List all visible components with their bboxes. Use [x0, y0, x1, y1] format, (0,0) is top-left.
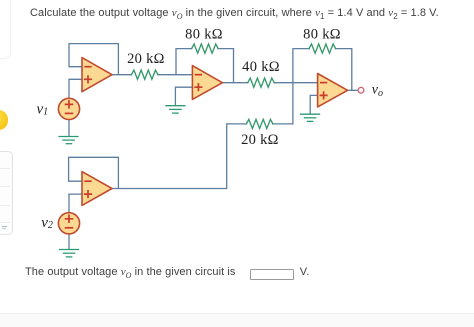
answer sentence: [25, 266, 236, 280]
svg-text:80 kΩ: 80 kΩ: [303, 27, 341, 43]
resistor R1 20 kOhm: [131, 70, 158, 79]
yellow circle fragment: [0, 110, 8, 129]
wire: R3 to U3 inverting input (junction node A at x=292.9): [274, 82, 318, 84]
wire: U4 output up to R5: [110, 124, 247, 189]
wire: U3 feedback right riser (R4 to output): [335, 49, 351, 91]
ground (U3 non-inverting input): [301, 114, 320, 121]
wire: U1 output to R1: [110, 74, 132, 76]
wire: U4 feedback loop: [69, 157, 119, 188]
left sidebar panel fragment: [0, 151, 13, 236]
wire: U2 non-inverting input to ground: [175, 87, 192, 105]
source V1 (independent voltage source): [58, 98, 79, 119]
unit V.: [300, 266, 310, 278]
svg-text:80 kΩ: 80 kΩ: [185, 27, 223, 43]
svg-text:20 kΩ: 20 kΩ: [241, 132, 279, 148]
wire: U2 feedback left riser: [176, 49, 192, 75]
svg-text:40 kΩ: 40 kΩ: [242, 59, 280, 75]
wire: V1 to ground: [68, 119, 70, 136]
resistor R3 40 kOhm: [248, 78, 275, 87]
node vo output terminal: [358, 87, 364, 93]
wire: U2 output to R3: [220, 82, 248, 84]
op-amp U1 (V1 voltage follower): [82, 58, 112, 92]
wire: R5 to node A: [273, 83, 293, 124]
op-amp U4 (V2 voltage follower): [82, 172, 112, 206]
wire: R1 to U2 inverting input: [158, 74, 193, 76]
ground (V1): [59, 137, 78, 144]
top-left faint panel corner: [0, 0, 11, 59]
wire: V2 to ground: [68, 234, 70, 249]
op-amp U2 (first inverting amp): [192, 66, 222, 100]
svg-text:v1: v1: [37, 102, 49, 118]
svg-text:20 kΩ: 20 kΩ: [127, 51, 165, 67]
op-amp U3 (second inverting amp): [318, 74, 348, 107]
wire: U3 feedback left riser from node A: [293, 49, 309, 83]
svg-text:vo: vo: [372, 83, 383, 100]
wire: U1 feedback loop (output to inverting input): [69, 44, 118, 75]
wire: U3 non-inverting input to ground: [310, 95, 317, 114]
answer input box: [250, 269, 294, 280]
resistor R2 80 kOhm (U2 feedback): [192, 44, 219, 53]
source V2 (independent voltage source): [58, 213, 79, 234]
wire: U4 non-inverting input to V2: [69, 194, 82, 212]
svg-text:v2: v2: [41, 215, 53, 231]
title question text: [30, 7, 439, 21]
ground (V2): [60, 250, 79, 257]
bottom bar: [0, 313, 474, 327]
wire: U2 feedback right riser (R2 to output): [218, 49, 234, 83]
wire: U3 output to terminal: [345, 89, 358, 91]
wire: U1 non-inverting input to V1: [69, 79, 82, 98]
resistor R5 20 kOhm (V2 branch): [246, 119, 273, 128]
ground (U2 non-inverting input): [166, 106, 185, 113]
resistor R4 80 kOhm (U3 feedback): [309, 44, 336, 53]
